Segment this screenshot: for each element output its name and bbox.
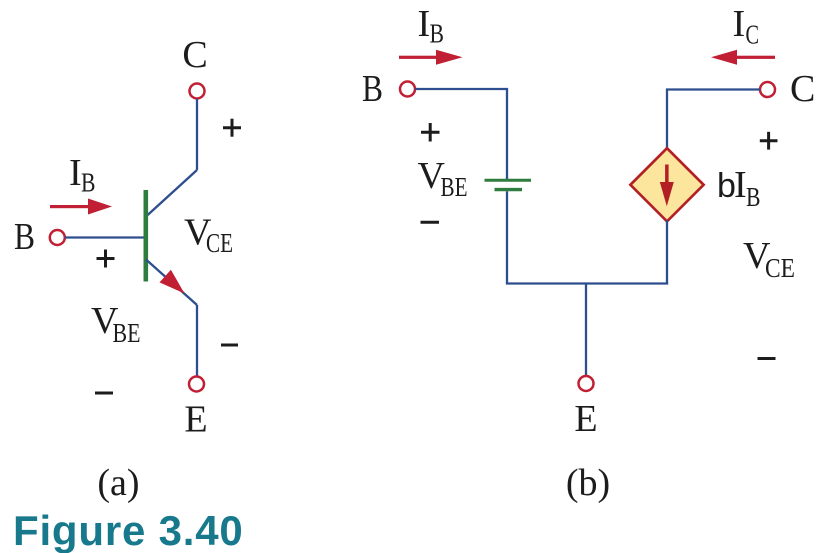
svg-text:C: C <box>790 68 815 110</box>
svg-text:BE: BE <box>441 172 468 202</box>
svg-text:B: B <box>746 182 761 212</box>
svg-text:I: I <box>418 3 431 45</box>
figure caption Figure 3.40 <box>13 507 244 553</box>
wire base (a) <box>65 236 144 238</box>
dependent source arrow (b) <box>660 165 674 207</box>
arrow IB (b) <box>399 50 463 65</box>
label IB (a) <box>69 152 96 198</box>
terminal B (b) <box>400 82 415 97</box>
terminal C (b) <box>760 82 775 97</box>
svg-text:I: I <box>733 3 746 45</box>
transistor bar (a) <box>144 190 149 282</box>
svg-text:I: I <box>734 164 747 206</box>
label B (a) <box>14 216 35 258</box>
wire collector diagonal (a) <box>146 170 197 217</box>
minus sign VBE (b) <box>421 221 440 224</box>
terminal C (a) <box>190 84 205 99</box>
arrow IB (a) <box>50 199 112 215</box>
label IB (b) <box>418 3 445 49</box>
svg-text:B: B <box>362 68 383 110</box>
plus sign VCE (b) <box>760 132 778 150</box>
minus sign emitter right (a) <box>221 344 238 347</box>
svg-text:C: C <box>182 34 207 76</box>
terminal E (a) <box>189 377 204 392</box>
battery plate short (b) <box>495 188 523 191</box>
label B (b) <box>362 68 383 110</box>
svg-text:B: B <box>14 216 35 258</box>
label VCE right (b) <box>743 235 795 283</box>
svg-text:I: I <box>69 152 82 194</box>
battery plate long (b) <box>485 179 532 182</box>
wire collector vertical (a) <box>196 99 198 170</box>
minus sign VCE (b) <box>758 357 776 360</box>
terminal B (a) <box>50 230 65 245</box>
wire from B to battery (b) <box>415 89 507 179</box>
svg-text:BE: BE <box>113 318 141 348</box>
svg-text:E: E <box>574 398 597 440</box>
label VCE (a) <box>184 211 233 258</box>
label VBE (a) <box>91 300 141 348</box>
svg-text:C: C <box>746 20 760 50</box>
wire dependent source to bottom (b) <box>666 220 668 283</box>
wire emitter diagonal (a) <box>146 260 197 306</box>
plus sign base (a) <box>97 250 115 268</box>
wire battery to bottom (b) <box>506 191 508 283</box>
caption (b) <box>566 462 610 504</box>
label E (b) <box>574 398 597 440</box>
svg-text:E: E <box>184 399 207 441</box>
emitter arrowhead (a) <box>160 270 185 294</box>
label IC (b) <box>733 3 760 50</box>
plus sign VBE (b) <box>421 123 440 142</box>
svg-text:CE: CE <box>765 253 795 283</box>
svg-text:B: B <box>81 168 96 198</box>
label C (a) <box>182 34 207 76</box>
svg-text:(b): (b) <box>566 462 610 504</box>
terminal E (b) <box>579 376 594 391</box>
wire emitter stub (b) <box>585 284 587 377</box>
svg-text:Figure 3.40: Figure 3.40 <box>13 507 244 553</box>
svg-text:CE: CE <box>206 228 233 258</box>
caption (a) <box>97 462 139 504</box>
minus sign base (a) <box>95 392 113 395</box>
dependent current source diamond (b) <box>630 148 703 221</box>
svg-text:(a): (a) <box>97 462 139 504</box>
label E (a) <box>184 399 207 441</box>
svg-text:B: B <box>430 19 445 49</box>
label bIB (b) <box>717 164 761 212</box>
wire bottom horizontal (b) <box>506 282 668 284</box>
arrow IC (b) <box>711 50 775 65</box>
wire emitter vertical (a) <box>196 305 198 376</box>
label VBE (b) <box>418 155 468 202</box>
plus sign collector (a) <box>223 119 241 137</box>
wire from C to dependent source (b) <box>667 90 760 150</box>
label C (b) <box>790 68 815 110</box>
